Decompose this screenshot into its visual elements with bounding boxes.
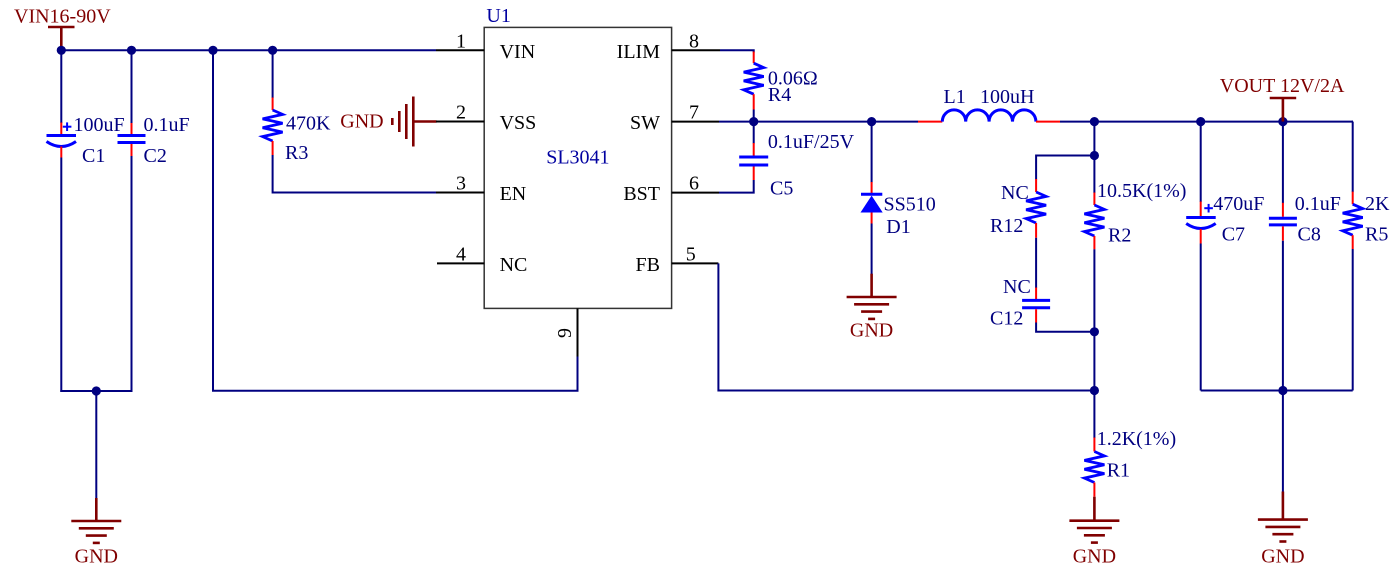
svg-text:1.2K(1%): 1.2K(1%): [1097, 428, 1176, 450]
wire left gnd rail: [60, 390, 132, 392]
pin 2 (VSS): [436, 102, 536, 135]
wire output gnd stem: [1282, 391, 1284, 493]
svg-text:FB: FB: [636, 254, 660, 276]
wire C1 bottom: [60, 158, 62, 393]
node junction output gnd: [1278, 386, 1287, 395]
svg-text:C8: C8: [1298, 224, 1321, 246]
svg-text:BST: BST: [623, 183, 660, 205]
wire mid vertical: [213, 50, 578, 390]
svg-text:4: 4: [456, 243, 466, 265]
svg-text:NC: NC: [1001, 182, 1029, 204]
svg-text:R3: R3: [285, 142, 308, 164]
capacitor C8: [1269, 203, 1297, 241]
svg-text:ILIM: ILIM: [617, 41, 661, 63]
svg-text:C2: C2: [144, 145, 167, 167]
power port VOUT: [1270, 98, 1297, 122]
capacitor C7: [1186, 202, 1216, 244]
svg-text:10.5K(1%): 10.5K(1%): [1097, 180, 1186, 202]
wire R3 to EN: [273, 155, 436, 193]
node junction C2: [127, 46, 136, 55]
wire R2 top: [1093, 122, 1095, 193]
wire R12 branch top: [1036, 156, 1094, 180]
wire C2 bottom: [131, 156, 133, 392]
svg-text:0.1uF: 0.1uF: [1295, 193, 1341, 215]
wire FB net: [718, 263, 1094, 390]
node junction VOUT/C8: [1278, 117, 1287, 126]
wire R5 bottom: [1352, 249, 1354, 391]
node junction C1/VIN: [57, 46, 66, 55]
svg-text:GND: GND: [75, 546, 118, 568]
svg-text:GND: GND: [850, 319, 893, 341]
svg-text:SS510: SS510: [884, 194, 936, 216]
svg-text:470uF: 470uF: [1213, 193, 1264, 215]
inductor L1: [918, 110, 1060, 122]
capacitor C5: [719, 122, 768, 193]
resistor R5: [1343, 192, 1363, 249]
ground R1: [1069, 497, 1119, 543]
svg-text:VOUT 12V/2A: VOUT 12V/2A: [1220, 75, 1345, 97]
pin 3 (EN): [436, 173, 526, 206]
svg-text:EN: EN: [500, 183, 527, 205]
wire pin8 to R4: [720, 50, 754, 52]
resistor R3: [263, 50, 283, 155]
pin 8 (ILIM): [617, 30, 720, 63]
svg-text:R1: R1: [1107, 460, 1130, 482]
svg-text:GND: GND: [1261, 546, 1304, 568]
wire SW from pin7: [719, 121, 872, 123]
wire C7 bottom: [1200, 244, 1202, 391]
svg-text:VSS: VSS: [500, 112, 537, 134]
pin 5 (FB): [636, 243, 719, 276]
wire R5 top: [1352, 122, 1354, 193]
wire R12 to C12: [1035, 238, 1037, 288]
svg-text:NC: NC: [500, 254, 528, 276]
svg-text:6: 6: [689, 173, 699, 195]
resistor R12: [1026, 179, 1046, 238]
svg-text:VIN: VIN: [500, 41, 536, 63]
node junction mid vertical: [208, 46, 217, 55]
svg-text:R5: R5: [1365, 224, 1388, 246]
pin 4 (NC): [437, 243, 527, 276]
ground output: [1258, 492, 1308, 542]
wire SW to L1: [872, 121, 918, 123]
svg-text:C1: C1: [82, 145, 105, 167]
svg-text:R4: R4: [768, 84, 791, 106]
svg-text:5: 5: [686, 243, 696, 265]
svg-text:R12: R12: [990, 215, 1023, 237]
svg-text:D1: D1: [886, 216, 910, 238]
capacitor C1: [47, 122, 77, 157]
svg-text:NC: NC: [1003, 276, 1031, 298]
svg-text:8: 8: [689, 30, 699, 52]
svg-text:R2: R2: [1108, 224, 1131, 246]
pin 7 (SW): [630, 102, 719, 134]
node junction SW/R4: [749, 117, 758, 126]
wire C8 bottom: [1282, 241, 1284, 391]
svg-text:9: 9: [554, 328, 576, 338]
wire C7 top: [1200, 122, 1202, 202]
pin 6 (BST): [623, 173, 719, 205]
wire output gnd rail: [1201, 390, 1353, 392]
wire left gnd stem: [95, 391, 97, 498]
wire R4 to SW node: [753, 110, 755, 122]
wire D1 top: [871, 122, 873, 183]
svg-text:GND: GND: [340, 110, 383, 132]
svg-text:3: 3: [456, 173, 466, 195]
svg-text:100uF: 100uF: [74, 114, 125, 136]
svg-text:7: 7: [689, 102, 699, 124]
capacitor C12: [1022, 288, 1050, 323]
resistor R2: [1084, 193, 1104, 250]
wire L1 to output rail: [1060, 121, 1353, 123]
ground left-bottom: [71, 498, 121, 543]
node junction SW/D1: [867, 117, 876, 126]
svg-text:1: 1: [456, 30, 466, 52]
node junction R2 top: [1090, 117, 1099, 126]
svg-text:2: 2: [456, 102, 466, 124]
wire C12 to R2 bottom: [1036, 323, 1094, 332]
node junction R3: [268, 46, 277, 55]
IC U1 body: [484, 27, 671, 308]
wire C2 top: [131, 50, 133, 123]
wire R1 top: [1093, 391, 1095, 439]
svg-text:SL3041: SL3041: [546, 147, 609, 169]
resistor R4: [744, 52, 764, 110]
wire C1 top: [60, 50, 62, 123]
svg-text:SW: SW: [630, 112, 660, 134]
node junction C7: [1196, 117, 1205, 126]
svg-text:C12: C12: [990, 307, 1023, 329]
ground D1: [847, 274, 897, 319]
svg-text:470K: 470K: [286, 113, 331, 135]
svg-text:2K: 2K: [1365, 193, 1390, 215]
wire C8 top: [1282, 122, 1284, 204]
node junction left gnd: [92, 386, 101, 395]
wire R2 bottom: [1093, 249, 1095, 390]
capacitor C2: [118, 123, 146, 156]
svg-text:C5: C5: [770, 177, 793, 199]
svg-text:GND: GND: [1073, 546, 1116, 568]
diode D1: [861, 182, 883, 224]
svg-text:C7: C7: [1222, 224, 1245, 246]
ground VSS (horizontal): [392, 97, 436, 147]
resistor R1: [1084, 438, 1104, 497]
wire D1 bottom: [871, 224, 873, 275]
svg-text:L1: L1: [944, 86, 966, 108]
node junction FB/R1: [1090, 386, 1099, 395]
svg-text:VIN16-90V: VIN16-90V: [14, 6, 111, 28]
node junction C12/R2: [1090, 327, 1099, 336]
svg-text:100uH: 100uH: [980, 86, 1034, 108]
node junction R12 branch: [1090, 151, 1099, 160]
svg-text:0.1uF: 0.1uF: [144, 114, 190, 136]
wire top rail: [61, 49, 436, 51]
pin 1 (VIN): [436, 30, 535, 63]
svg-text:0.1uF/25V: 0.1uF/25V: [768, 131, 855, 153]
svg-text:U1: U1: [486, 5, 510, 27]
pin 9 (pad): [554, 308, 578, 356]
power port VIN: [48, 27, 75, 50]
